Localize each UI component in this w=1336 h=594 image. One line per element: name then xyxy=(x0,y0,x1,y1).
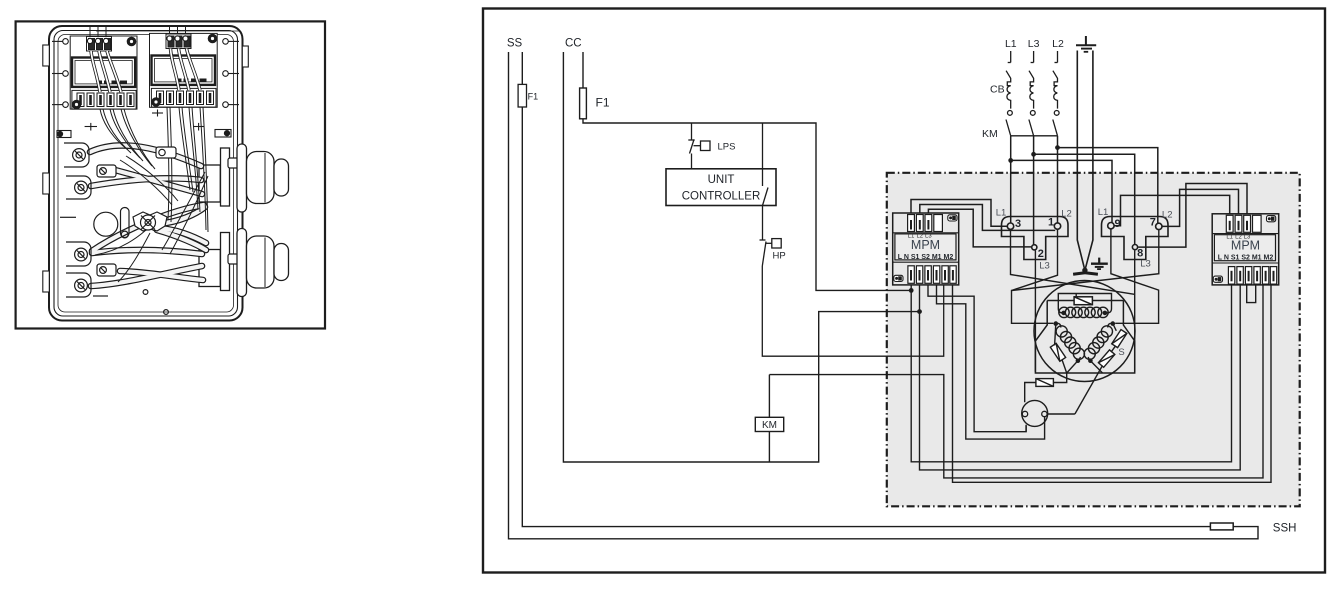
svg-text:CONTROLLER: CONTROLLER xyxy=(682,191,761,203)
right module screws xyxy=(152,34,217,106)
svg-text:LPS: LPS xyxy=(718,142,736,153)
heater SSH xyxy=(1210,523,1233,530)
svg-text:L2: L2 xyxy=(1052,38,1064,50)
svg-text:KM: KM xyxy=(982,128,998,140)
contactor coil KM xyxy=(755,417,783,431)
thermistor chain connectors xyxy=(1055,324,1117,373)
svg-text:CC: CC xyxy=(565,38,582,50)
svg-text:L1: L1 xyxy=(908,234,915,240)
winding vertex taps xyxy=(1054,321,1059,326)
left MPM module (illustration) xyxy=(70,36,137,109)
flat connectors xyxy=(97,147,244,276)
wire MPM L supply rail xyxy=(911,285,1231,462)
svg-text:L2: L2 xyxy=(1235,234,1242,240)
svg-text:F1: F1 xyxy=(528,92,539,102)
right phase winding coil xyxy=(1084,323,1113,360)
wire CC supply via F1 xyxy=(583,52,911,290)
center hub clamp xyxy=(133,212,167,231)
module feed stubs to lid xyxy=(90,27,240,38)
slot with hole xyxy=(60,208,168,315)
svg-text:MPM: MPM xyxy=(911,238,940,252)
box side tabs xyxy=(43,45,249,292)
wire left MPM M2 to right MPM M2 xyxy=(953,285,1272,482)
junction box outline xyxy=(49,26,243,321)
run capacitor / PTC (slashed box) on frame xyxy=(1074,297,1092,305)
svg-text:KM: KM xyxy=(762,420,777,431)
svg-text:HP: HP xyxy=(773,251,786,262)
svg-text:L1: L1 xyxy=(1098,207,1109,218)
thick cables xyxy=(90,145,206,286)
svg-text:L1: L1 xyxy=(996,208,1007,219)
wire CC left return xyxy=(563,52,920,462)
svg-text:8: 8 xyxy=(1137,247,1143,259)
stud circles xyxy=(1007,223,1162,250)
svg-text:MPM: MPM xyxy=(1231,239,1260,253)
svg-text:L3: L3 xyxy=(1244,234,1251,240)
motor protector MPM right xyxy=(1212,214,1279,285)
MPM tap wires left module xyxy=(911,200,1055,247)
fuse F1 (SS line) xyxy=(518,84,526,107)
thermistor right upper (slashed box) xyxy=(1112,330,1127,348)
lower cable gland (outside) xyxy=(237,229,289,297)
svg-text:UNIT: UNIT xyxy=(708,174,735,186)
thin wires from modules to lower area xyxy=(95,107,208,282)
svg-text:SS: SS xyxy=(507,38,523,50)
fuse F1 (CC line) xyxy=(580,88,587,119)
thermistor left (slashed box) xyxy=(1050,343,1065,361)
internal earth point xyxy=(1082,268,1087,273)
svg-text:S: S xyxy=(1118,347,1124,358)
svg-text:9: 9 xyxy=(1114,218,1120,230)
sensor head circle xyxy=(1022,400,1048,426)
svg-text:SSH: SSH xyxy=(1273,523,1297,535)
svg-text:L3: L3 xyxy=(1028,38,1040,50)
MPM tap wires right module xyxy=(1114,184,1247,248)
svg-text:L N S1 S2 M1 M2: L N S1 S2 M1 M2 xyxy=(1218,255,1274,262)
right module label marks xyxy=(177,79,207,82)
right module wires xyxy=(171,49,201,91)
svg-text:3: 3 xyxy=(1015,218,1021,230)
wire KM coil to right MPM M1 xyxy=(769,285,1263,478)
motor shell circle xyxy=(1034,281,1135,382)
cable lugs xyxy=(64,143,91,297)
svg-text:CB: CB xyxy=(990,84,1005,96)
plain circle xyxy=(94,212,118,236)
wire left MPM S1 to sensor xyxy=(928,285,1026,432)
left phase winding coil xyxy=(1056,323,1085,360)
thermistor right lower (slashed box) xyxy=(1098,350,1114,367)
cable gland plates (inside) xyxy=(199,148,230,291)
wire SS pair to SSH loop xyxy=(522,52,1210,527)
svg-text:L3: L3 xyxy=(925,234,932,240)
terminal plate right (studs 9-7-8) xyxy=(1102,217,1169,260)
svg-text:2: 2 xyxy=(1038,248,1044,260)
compressor enclosure (dash-dot gray region) xyxy=(887,173,1300,507)
svg-text:L N S1 S2 M1 M2: L N S1 S2 M1 M2 xyxy=(898,254,954,261)
winding bottom connections xyxy=(1025,361,1103,414)
unit controller box xyxy=(666,169,776,206)
upper cable gland (outside) xyxy=(237,144,289,212)
wire MPM N supply rail xyxy=(920,285,1241,470)
terminal plate left (studs 3-1-2) xyxy=(1002,217,1069,260)
svg-text:F1: F1 xyxy=(596,96,610,110)
left module label marks xyxy=(97,81,127,84)
switch LPS xyxy=(688,123,710,169)
controller output switch xyxy=(763,123,769,206)
svg-text:L3: L3 xyxy=(1039,261,1050,272)
outer frame xyxy=(16,21,325,328)
schematic border xyxy=(483,9,1325,573)
jumper S1-S2 right MPM xyxy=(1247,285,1256,303)
earth conductors xyxy=(1077,51,1093,271)
wire left MPM S2 to sensor xyxy=(937,285,1045,439)
stator frame xyxy=(1035,301,1134,374)
svg-text:L1: L1 xyxy=(1005,38,1017,50)
left module screws xyxy=(72,37,135,108)
main winding coil (top) xyxy=(1059,307,1108,317)
left module wires xyxy=(91,51,121,92)
svg-text:L3: L3 xyxy=(1140,259,1151,270)
svg-text:L1: L1 xyxy=(1226,234,1233,240)
internal protector (slashed box, bottom) xyxy=(1036,379,1054,387)
start winding branch xyxy=(1058,294,1111,313)
junction dots control xyxy=(909,288,922,314)
phase wires to studs xyxy=(1011,136,1158,244)
motor protector MPM left xyxy=(893,213,959,285)
small T screws and tabs below modules xyxy=(57,110,231,138)
internal earth symbol xyxy=(1091,258,1108,270)
wall mount holes xyxy=(52,39,239,108)
switch HP xyxy=(760,206,944,357)
svg-text:L2: L2 xyxy=(916,234,923,240)
supply terminal ticks xyxy=(1008,51,1058,63)
svg-text:L2: L2 xyxy=(1061,209,1072,220)
supply earth symbol xyxy=(1076,36,1096,52)
wires studs to motor xyxy=(1011,229,1159,372)
svg-text:1: 1 xyxy=(1048,217,1054,229)
svg-text:L2: L2 xyxy=(1162,210,1173,221)
right MPM module (illustration) xyxy=(150,33,218,107)
